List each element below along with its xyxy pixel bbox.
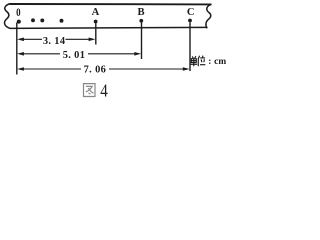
unit label CJK wei (position): [198, 56, 205, 67]
dimension arrowhead left row2: [17, 52, 24, 56]
dimension arrowhead left row3: [17, 67, 24, 71]
dimension arrowhead right row2: [134, 52, 141, 56]
point dot O: [17, 20, 21, 24]
ellipsis dot 2: [40, 18, 44, 22]
point dot A: [94, 20, 98, 24]
dimension line 5.01 left segment: [24, 53, 61, 55]
ellipsis dot 1: [31, 18, 35, 22]
svg-text:7. 06: 7. 06: [84, 64, 107, 75]
ruler top edge: [10, 3, 212, 5]
svg-text:C: C: [187, 7, 195, 18]
extension line from A: [95, 23, 97, 45]
figure caption CJK tu (figure): [84, 84, 96, 97]
extension line from O: [16, 23, 18, 75]
point dot C: [188, 19, 192, 23]
right break squiggle: [206, 4, 212, 28]
extension line from C: [189, 23, 191, 72]
dimension arrowhead left row1: [17, 38, 24, 42]
dimension arrowhead right row1: [89, 38, 96, 42]
dimension line 5.01 right segment: [88, 53, 135, 55]
dimension arrowhead right row3: [183, 67, 190, 71]
point dot B: [139, 19, 143, 23]
extension line from B: [141, 23, 143, 60]
svg-text:3. 14: 3. 14: [43, 36, 66, 47]
svg-text:: cm: : cm: [208, 57, 226, 67]
dimension line 7.06 left segment: [24, 68, 82, 70]
dimension line 3.14 right segment: [66, 38, 90, 40]
svg-text:4: 4: [100, 80, 108, 101]
left break squiggle: [5, 4, 11, 29]
ruler bottom edge: [10, 27, 208, 28]
dimension line 7.06 right segment: [109, 68, 184, 70]
svg-text:A: A: [92, 7, 100, 18]
unit label CJK dan (single): [190, 56, 197, 66]
svg-text:B: B: [138, 7, 145, 18]
dimension line 3.14 left segment: [24, 38, 43, 40]
svg-text:5. 01: 5. 01: [63, 50, 86, 61]
ellipsis dot 3: [60, 19, 64, 23]
svg-text:0: 0: [16, 7, 20, 19]
